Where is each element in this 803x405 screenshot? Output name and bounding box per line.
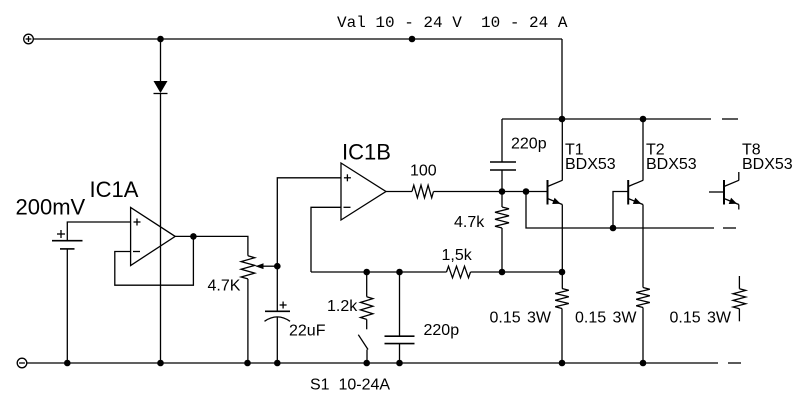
transistor T8 BDX53 bbox=[724, 180, 739, 205]
node bottom rail pot bbox=[244, 360, 251, 367]
node pot wiper junction bbox=[274, 263, 281, 270]
node feedback emitter junction bbox=[559, 269, 566, 276]
wire T1 collector bbox=[561, 119, 563, 181]
node T2 base junction bbox=[610, 225, 617, 232]
svg-text:BDX53: BDX53 bbox=[565, 156, 616, 173]
op-amp IC1B bbox=[341, 163, 386, 220]
wire top rail right drop bbox=[561, 39, 563, 119]
svg-text:BDX53: BDX53 bbox=[646, 156, 697, 173]
node feedback 220p junction bbox=[396, 269, 403, 276]
wire T1 emitter bbox=[561, 205, 563, 289]
capacitor 22uF bbox=[265, 266, 291, 363]
resistor 100 bbox=[412, 185, 434, 198]
resistor 1.2k bbox=[361, 272, 373, 329]
svg-text:22uF: 22uF bbox=[289, 323, 326, 340]
svg-text:200mV: 200mV bbox=[16, 195, 86, 220]
resistor 1,5k bbox=[447, 266, 471, 278]
wire collector rail bbox=[502, 118, 711, 120]
wire T8 base stub bbox=[709, 191, 724, 193]
wire collector rail dash bbox=[722, 118, 738, 120]
svg-text:IC1B: IC1B bbox=[342, 140, 391, 165]
svg-text:3W: 3W bbox=[707, 310, 732, 327]
svg-text:4.7K: 4.7K bbox=[208, 278, 241, 295]
wire bottom rail dash bbox=[728, 362, 741, 364]
node diode branch junction bbox=[157, 36, 164, 43]
wire top positive rail bbox=[33, 38, 562, 40]
node Val label junction bbox=[409, 36, 416, 43]
wire 100 to T1 base bbox=[434, 191, 548, 193]
wire IC1B minus input bbox=[311, 207, 341, 272]
resistor 0.15 3W T1 bbox=[555, 289, 569, 309]
wire T1 emitter resistor to rail bbox=[561, 309, 563, 364]
svg-text:3W: 3W bbox=[527, 310, 552, 327]
wire IC1B plus input bbox=[277, 178, 341, 266]
node output 220p junction bbox=[499, 188, 506, 195]
wire T2 base link dash bbox=[723, 227, 736, 229]
node bottom rail battery bbox=[64, 360, 71, 367]
node IC1A output junction bbox=[190, 233, 197, 240]
svg-text:3W: 3W bbox=[613, 310, 638, 327]
terminal plus bbox=[24, 34, 34, 44]
op-amp IC1A bbox=[131, 207, 176, 265]
wire T2 emitter bbox=[642, 205, 644, 288]
node collector rail T2 bbox=[640, 116, 647, 123]
resistor 0.15 3W T2 bbox=[636, 288, 650, 308]
wire T2 base link bbox=[526, 192, 714, 229]
svg-text:4.7k: 4.7k bbox=[454, 214, 485, 231]
switch S1 bbox=[358, 335, 368, 363]
terminal minus bbox=[17, 358, 27, 368]
node bottom rail diode branch bbox=[157, 360, 164, 367]
svg-text:1.2k: 1.2k bbox=[327, 298, 358, 315]
transistor T2 BDX53 bbox=[628, 180, 643, 205]
node feedback 1.2k junction bbox=[363, 269, 370, 276]
svg-text:0.15: 0.15 bbox=[490, 310, 521, 327]
capacitor 220p bottom bbox=[385, 272, 415, 363]
wire feedback line bbox=[311, 271, 447, 273]
node bottom rail T1 emitter bbox=[559, 360, 566, 367]
resistor 0.15 3W T8 bbox=[733, 276, 746, 321]
transistor T1 BDX53 bbox=[548, 180, 563, 205]
node feedback 4.7k junction bbox=[499, 269, 506, 276]
diode D1 bbox=[154, 81, 168, 94]
node collector rail T1 bbox=[559, 116, 566, 123]
svg-text:0.15: 0.15 bbox=[575, 310, 606, 327]
resistor 4.7k bbox=[495, 192, 509, 273]
node bottom rail switch bbox=[363, 360, 370, 367]
wire battery minus to rail bbox=[66, 249, 68, 363]
wire battery plus to IC1A bbox=[67, 222, 130, 241]
node output T2-link junction bbox=[523, 188, 530, 195]
svg-text:220p: 220p bbox=[511, 136, 547, 153]
node bottom rail 22uF bbox=[274, 360, 281, 367]
wire T2 emitter resistor to rail bbox=[642, 308, 644, 364]
wire pot to bottom rail bbox=[247, 279, 249, 363]
capacitor 220p top bbox=[490, 119, 516, 192]
wire rail to diode bbox=[160, 39, 162, 81]
svg-text:100: 100 bbox=[410, 163, 437, 180]
wire T2 collector bbox=[642, 119, 644, 181]
wire IC1A feedback loop bbox=[115, 236, 194, 285]
wire bottom negative rail bbox=[27, 362, 718, 364]
wire diode to bottom rail bbox=[160, 94, 162, 364]
svg-text:S1 10-24A: S1 10-24A bbox=[310, 377, 390, 394]
svg-text:0.15: 0.15 bbox=[670, 310, 701, 327]
wire T2 base riser bbox=[613, 192, 628, 229]
svg-text:Val 10 - 24 V 10 - 24 A: Val 10 - 24 V 10 - 24 A bbox=[337, 14, 568, 32]
svg-text:220p: 220p bbox=[424, 322, 460, 339]
wire 1,5k to T1 emitter bbox=[471, 271, 563, 273]
svg-text:BDX53: BDX53 bbox=[742, 156, 793, 173]
wire T8 collector stub bbox=[738, 172, 740, 181]
svg-text:1,5k: 1,5k bbox=[442, 247, 473, 264]
potentiometer 4.7K bbox=[241, 256, 277, 279]
battery 200mV bbox=[52, 230, 83, 249]
svg-text:IC1A: IC1A bbox=[90, 177, 139, 202]
wire T8 emitter stub bbox=[738, 205, 740, 210]
wire IC1B output bbox=[386, 191, 412, 193]
node bottom rail T2 emitter bbox=[640, 360, 647, 367]
node bottom rail 220p bbox=[396, 360, 403, 367]
wire IC1A output to pot bbox=[175, 236, 248, 255]
